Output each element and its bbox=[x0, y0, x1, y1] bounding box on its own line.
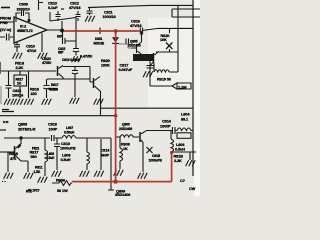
svg-text:88.1: 88.1 bbox=[181, 117, 189, 121]
svg-text:220: 220 bbox=[31, 92, 37, 96]
svg-text:L806: L806 bbox=[176, 143, 184, 147]
svg-text:IC-2: IC-2 bbox=[20, 25, 26, 29]
svg-text:0.56uH: 0.56uH bbox=[64, 130, 75, 134]
svg-text:47/16: 47/16 bbox=[27, 49, 36, 53]
svg-text:C816: C816 bbox=[131, 20, 140, 24]
svg-text:C821: C821 bbox=[13, 89, 23, 93]
svg-text:C819 0.68uF: C819 0.68uF bbox=[62, 58, 80, 62]
svg-text:C814: C814 bbox=[101, 149, 111, 153]
svg-text:C810: C810 bbox=[26, 45, 35, 49]
svg-text:0.047uF: 0.047uF bbox=[119, 68, 133, 72]
svg-text:56 1W: 56 1W bbox=[57, 189, 68, 193]
svg-text:R819 56: R819 56 bbox=[157, 78, 171, 82]
svg-text:1.2M: 1.2M bbox=[178, 84, 187, 89]
svg-text:L808: L808 bbox=[62, 154, 71, 158]
svg-text:0.1uF: 0.1uF bbox=[48, 6, 58, 10]
svg-text:1K: 1K bbox=[123, 147, 128, 151]
svg-text:R808: R808 bbox=[56, 179, 66, 183]
svg-text:2SD1406: 2SD1406 bbox=[119, 127, 132, 131]
svg-text:RD5.6E: RD5.6E bbox=[94, 41, 105, 45]
svg-text:R809: R809 bbox=[121, 143, 130, 147]
svg-text:R817: R817 bbox=[30, 150, 39, 154]
svg-text:C809: C809 bbox=[19, 3, 28, 7]
svg-text:2STB01-R: 2STB01-R bbox=[18, 127, 36, 131]
svg-text:0.5uH: 0.5uH bbox=[175, 147, 185, 151]
svg-text:C81B: C81B bbox=[152, 154, 161, 158]
svg-text:PRE: PRE bbox=[0, 21, 8, 25]
svg-text:1000P: 1000P bbox=[160, 124, 171, 128]
svg-text:4558/TL72: 4558/TL72 bbox=[17, 29, 33, 33]
svg-text:R818: R818 bbox=[9, 152, 19, 156]
svg-text:0.5uH: 0.5uH bbox=[46, 156, 55, 160]
svg-text:R81B: R81B bbox=[174, 154, 184, 158]
svg-text:Q808: Q808 bbox=[18, 123, 28, 127]
svg-text:560P: 560P bbox=[101, 153, 110, 157]
svg-text:1.5K: 1.5K bbox=[34, 170, 41, 174]
svg-text:100P: 100P bbox=[49, 127, 58, 131]
svg-text:2SD1406: 2SD1406 bbox=[128, 43, 141, 47]
svg-text:560: 560 bbox=[31, 155, 37, 159]
svg-text:2.2K: 2.2K bbox=[16, 66, 24, 70]
svg-text:47V/16: 47V/16 bbox=[130, 24, 142, 28]
svg-text:(1V m): (1V m) bbox=[0, 28, 12, 32]
svg-text:C811: C811 bbox=[104, 11, 114, 15]
svg-text:R811: R811 bbox=[35, 165, 43, 169]
svg-text:CW: CW bbox=[189, 187, 196, 191]
svg-text:FROM: FROM bbox=[0, 17, 11, 21]
svg-text:1000/16: 1000/16 bbox=[103, 15, 116, 19]
svg-text:R820: R820 bbox=[101, 59, 110, 63]
svg-text:C813: C813 bbox=[48, 2, 57, 6]
svg-text:2SD1406: 2SD1406 bbox=[115, 193, 130, 196]
svg-text:L805: L805 bbox=[47, 152, 54, 156]
svg-text:a m: a m bbox=[3, 120, 8, 124]
svg-text:100K: 100K bbox=[101, 64, 110, 68]
svg-text:47V/16: 47V/16 bbox=[69, 6, 81, 10]
svg-text:C?: C? bbox=[180, 179, 186, 183]
svg-text:RT2: RT2 bbox=[26, 190, 32, 194]
svg-text:L807: L807 bbox=[66, 126, 73, 130]
svg-text:R818: R818 bbox=[30, 87, 40, 91]
svg-text:470: 470 bbox=[10, 157, 16, 161]
svg-text:Q806: Q806 bbox=[122, 122, 130, 126]
svg-text:C818: C818 bbox=[61, 142, 71, 146]
svg-text:47/50: 47/50 bbox=[42, 61, 51, 65]
svg-text:L804: L804 bbox=[181, 112, 190, 116]
svg-text:0.47/50: 0.47/50 bbox=[80, 55, 92, 59]
svg-text:2.2K: 2.2K bbox=[174, 159, 182, 163]
svg-text:0.5uH: 0.5uH bbox=[61, 158, 71, 162]
svg-text:C818: C818 bbox=[48, 123, 58, 127]
svg-text:100/16: 100/16 bbox=[12, 93, 23, 97]
svg-text:10K: 10K bbox=[160, 38, 167, 42]
svg-text:C817: C817 bbox=[120, 63, 129, 67]
svg-text:2200/10: 2200/10 bbox=[17, 8, 30, 12]
svg-text:1000uPB: 1000uPB bbox=[60, 146, 76, 150]
svg-text:R817: R817 bbox=[51, 83, 59, 87]
svg-text:1000uPB: 1000uPB bbox=[149, 159, 163, 163]
svg-text:FB18: FB18 bbox=[15, 61, 25, 65]
svg-text:0.068: 0.068 bbox=[50, 88, 58, 92]
svg-text:C812: C812 bbox=[70, 2, 79, 6]
svg-text:FB11: FB11 bbox=[32, 147, 40, 151]
svg-text:C814: C814 bbox=[162, 120, 172, 124]
